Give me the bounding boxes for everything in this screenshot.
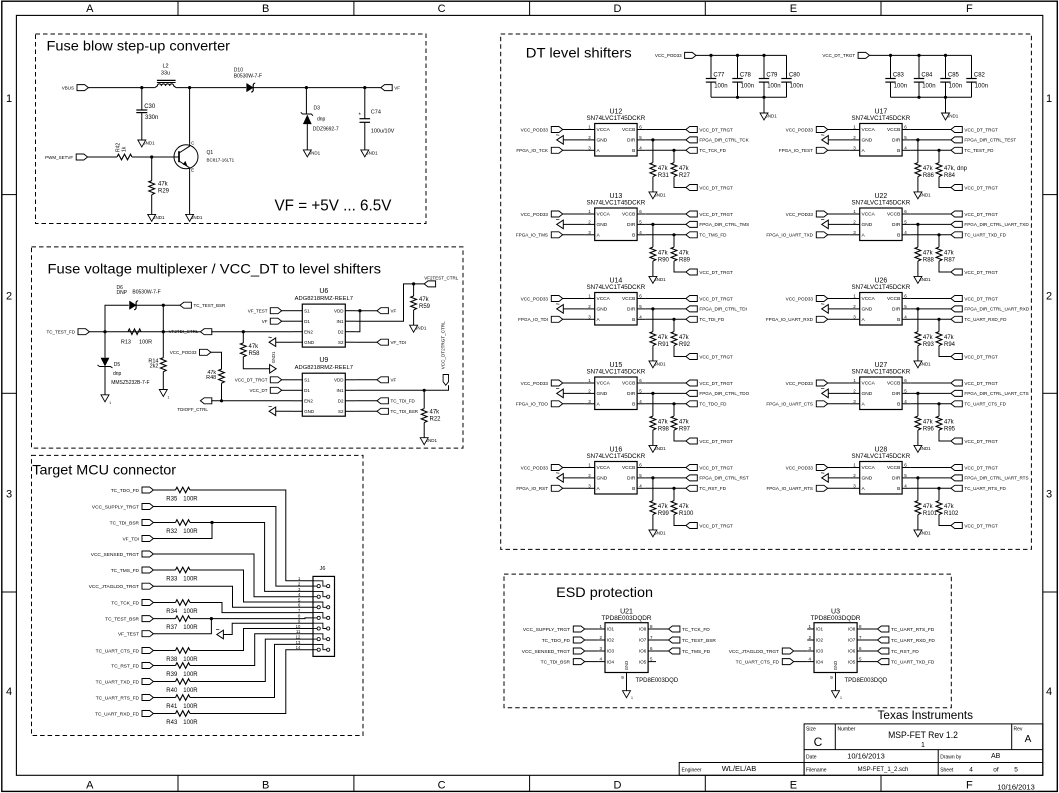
svg-text:S2: S2 (338, 409, 344, 414)
node TC_RST_FD (878, 648, 920, 655)
wire (153, 489, 176, 491)
wire (917, 393, 919, 416)
svg-text:330n: 330n (145, 115, 158, 121)
wire (306, 124, 308, 150)
svg-text:R93: R93 (923, 342, 935, 348)
svg-text:47k, dnp: 47k, dnp (944, 166, 968, 172)
svg-text:R88: R88 (923, 257, 935, 263)
node VCC_DT_TRGT (951, 269, 998, 275)
svg-text:1: 1 (6, 93, 12, 105)
wire (918, 55, 920, 78)
svg-text:VCC_DT_TRGT: VCC_DT_TRGT (964, 296, 998, 301)
section box: DT level shifters (501, 34, 1032, 549)
node FPGA_IO_UART_RTS (766, 485, 827, 491)
wire (763, 82, 765, 97)
svg-text:MSP-FET Rev 1.2: MSP-FET Rev 1.2 (888, 730, 958, 740)
wire (890, 55, 892, 78)
node VCC_POD33 (786, 380, 828, 386)
wire (151, 195, 153, 215)
svg-text:VF: VF (391, 309, 397, 314)
svg-text:VCC_SUPPLY_TRGT: VCC_SUPPLY_TRGT (92, 504, 139, 510)
node VCC_DT_TRGT (686, 465, 733, 471)
wire (242, 332, 244, 343)
svg-text:L2: L2 (162, 64, 168, 70)
svg-text:C84: C84 (921, 73, 933, 79)
svg-text:GND: GND (597, 476, 608, 482)
svg-text:BC817-16LT1: BC817-16LT1 (207, 158, 235, 163)
wire (562, 129, 585, 131)
wire (763, 97, 765, 113)
wire (827, 487, 850, 489)
wire (355, 410, 377, 412)
wire (656, 650, 669, 652)
node FPGA_IO_UART_TXD (766, 232, 827, 238)
junction (672, 233, 675, 236)
resistor R95 47k (936, 416, 956, 432)
svg-text:A: A (1025, 734, 1032, 745)
svg-text:100n: 100n (975, 84, 988, 90)
svg-text:Sheet: Sheet (940, 768, 954, 774)
svg-text:Filename: Filename (806, 768, 827, 774)
svg-text:TC_UART_RTS_FD: TC_UART_RTS_FD (96, 695, 140, 701)
resistor R92 47k (671, 332, 691, 348)
capacitor C83 100n (885, 73, 907, 90)
wire (827, 129, 850, 131)
wire (190, 570, 313, 602)
wire (562, 234, 585, 236)
node TC_TMS_FD (686, 232, 727, 238)
svg-text:100n: 100n (767, 84, 780, 90)
svg-text:TC_TDO_FD: TC_TDO_FD (542, 638, 571, 644)
net arrow GND1 (556, 219, 563, 228)
wire (153, 713, 176, 715)
svg-text:R43: R43 (166, 720, 178, 726)
node TC_UART_RXD_FD (878, 637, 936, 644)
resistor R14 2k2 (148, 358, 166, 372)
wire (911, 477, 951, 479)
svg-text:FPGA_IO_TDI: FPGA_IO_TDI (518, 317, 548, 322)
wire (253, 87, 381, 89)
svg-text:IO5: IO5 (639, 659, 647, 664)
svg-text:FPGA_DIR_CTRL_RST: FPGA_DIR_CTRL_RST (699, 476, 748, 481)
wire (132, 156, 179, 158)
svg-text:D3: D3 (314, 106, 321, 112)
svg-text:47k: 47k (158, 182, 169, 188)
IC U9 ADG8218RMZ-REEL7 (293, 357, 356, 416)
wire (673, 404, 675, 416)
node VCC_SUPPLY_TRGT (92, 504, 153, 511)
wire (652, 393, 654, 416)
resistor R32 100R (166, 520, 198, 535)
ground GND1 (101, 395, 111, 405)
svg-text:VCC_POD33: VCC_POD33 (521, 127, 549, 132)
resistor R94 47k (936, 332, 956, 348)
wire (827, 467, 850, 469)
svg-text:FPGA_DIR_CTRL_UART_TXD: FPGA_DIR_CTRL_UART_TXD (964, 222, 1029, 227)
junction (412, 282, 415, 285)
svg-text:R41: R41 (166, 704, 178, 710)
svg-text:J6: J6 (320, 566, 326, 572)
svg-text:47k: 47k (658, 166, 669, 172)
wire (911, 318, 951, 320)
svg-text:A: A (86, 3, 94, 15)
svg-text:47k: 47k (658, 250, 669, 256)
svg-text:C: C (438, 3, 446, 15)
svg-text:TC_UART_RXD_FD: TC_UART_RXD_FD (964, 317, 1007, 322)
svg-text:R87: R87 (944, 257, 956, 263)
wire (88, 87, 155, 89)
wire (827, 149, 850, 151)
wire (562, 298, 585, 300)
svg-text:VF_TDI: VF_TDI (391, 340, 407, 345)
wire (938, 150, 940, 162)
node FPGA_DIR_CTRL_TMS (686, 221, 749, 227)
wire (563, 392, 585, 394)
svg-text:C80: C80 (789, 73, 801, 79)
svg-text:R39: R39 (166, 672, 178, 678)
junction (651, 392, 654, 395)
svg-text:B: B (262, 3, 269, 15)
svg-text:47k: 47k (923, 250, 934, 256)
svg-text:VCCB: VCCB (622, 381, 635, 387)
node TC_TMS_FD (111, 567, 154, 574)
node FPGA_DIR_CTRL_UART_TXD (951, 221, 1029, 227)
capacitor C80 100n (781, 73, 803, 90)
svg-text:FPGA_DIR_CTRL_TDO: FPGA_DIR_CTRL_TDO (699, 391, 749, 396)
svg-text:R98: R98 (658, 426, 670, 432)
svg-text:TC_TEST_FD: TC_TEST_FD (46, 330, 75, 335)
wire (938, 319, 940, 331)
wire (584, 650, 598, 652)
svg-text:GND: GND (597, 222, 608, 228)
svg-text:VF: VF (394, 85, 400, 90)
svg-text:SN74LVC1T45DCKR: SN74LVC1T45DCKR (852, 200, 911, 207)
wire (223, 623, 313, 634)
resistor R100 47k (671, 501, 694, 517)
node VCC_POD33 (521, 211, 563, 217)
wire (281, 389, 292, 391)
resistor R102 47k (936, 501, 959, 517)
wire (827, 318, 850, 320)
svg-text:SN74LVC1T45DCKR: SN74LVC1T45DCKR (852, 115, 911, 122)
node TC_TDI_BSR (541, 659, 585, 666)
node TC_TEST_BSR (105, 616, 153, 623)
svg-text:TC_TMS_FD: TC_TMS_FD (699, 233, 727, 238)
wire (141, 113, 143, 140)
node VCC_DT_TRGT (686, 523, 733, 529)
node FPGA_IO_UART_RXD (766, 316, 828, 322)
svg-text:R95: R95 (944, 426, 956, 432)
junction (709, 54, 712, 57)
node TC_UART_CTS_FD (736, 659, 794, 666)
wire (917, 224, 919, 247)
svg-text:TPD8E003DQDR: TPD8E003DQDR (601, 615, 651, 622)
node FPGA_DIR_CTRL_UART_RXD (951, 306, 1030, 312)
wire (562, 403, 585, 405)
svg-text:47k: 47k (430, 410, 441, 416)
svg-text:100n: 100n (949, 84, 962, 90)
node VCC_JTAGLDO_TRGT (89, 583, 154, 590)
wire (276, 341, 293, 343)
svg-text:VCC_POD33: VCC_POD33 (786, 296, 814, 301)
svg-text:DNP: DNP (117, 290, 128, 296)
node VCC_DT_TRGT (686, 438, 733, 444)
junction (220, 399, 223, 402)
svg-text:U6: U6 (319, 288, 328, 295)
node VCC_DT_TRGT (951, 380, 998, 386)
diode D3 DDZ9692-7 dnp (301, 106, 339, 133)
svg-text:B: B (632, 401, 635, 407)
svg-text:B0530W-7-F: B0530W-7-F (132, 290, 160, 296)
svg-text:DIR: DIR (627, 307, 636, 313)
IC U3 TPD8E003DQDR (807, 609, 888, 691)
wire (646, 213, 686, 215)
svg-text:TC_TDI_FD: TC_TDI_FD (699, 317, 724, 322)
wire (710, 82, 712, 97)
svg-text:FPGA_DIR_CTRL_TCK: FPGA_DIR_CTRL_TCK (699, 138, 749, 143)
svg-text:VCC_DT_TRGT: VCC_DT_TRGT (699, 270, 733, 275)
wire (87, 156, 117, 158)
node VCC_DT_TRGT (686, 269, 733, 275)
wire (136, 304, 180, 306)
wire (190, 644, 313, 697)
wire (151, 157, 153, 181)
svg-text:R33: R33 (166, 576, 178, 582)
node VCC_DT_TRGT (686, 354, 733, 360)
svg-text:VDD: VDD (334, 308, 344, 313)
svg-text:GND: GND (862, 391, 873, 397)
svg-text:Drawn by: Drawn by (940, 755, 962, 761)
ground GND1 (148, 214, 165, 221)
svg-text:GND: GND (833, 661, 838, 670)
svg-text:F: F (966, 3, 973, 15)
svg-text:47k: 47k (944, 335, 955, 341)
svg-text:14: 14 (296, 645, 301, 650)
svg-text:47k: 47k (658, 335, 669, 341)
svg-text:VCC_DT_TRGT: VCC_DT_TRGT (964, 439, 998, 444)
wire (652, 346, 654, 361)
svg-text:R35: R35 (166, 496, 178, 502)
wire (153, 618, 176, 620)
svg-text:R90: R90 (658, 257, 670, 263)
svg-text:D5: D5 (114, 362, 121, 368)
node FPGA_IO_TCK (516, 147, 562, 153)
svg-text:100R: 100R (183, 657, 198, 663)
svg-text:FPGA_DIR_CTRL_UART_RXD: FPGA_DIR_CTRL_UART_RXD (964, 307, 1029, 312)
wire (911, 149, 951, 151)
ground GND1 (942, 113, 959, 120)
net arrow GND1 (556, 135, 563, 144)
ground GND1 (410, 325, 427, 332)
section box: Fuse blow step-up converter (36, 34, 427, 224)
wire (153, 619, 212, 634)
svg-text:U9: U9 (319, 357, 328, 364)
wire (646, 403, 686, 405)
svg-text:SN74LVC1T45DCKR: SN74LVC1T45DCKR (852, 284, 911, 291)
svg-text:47k: 47k (419, 297, 430, 303)
node TC_TEST_BSR (180, 302, 226, 308)
svg-text:SN74LVC1T45DCKR: SN74LVC1T45DCKR (587, 284, 646, 291)
resistor R48 47k (206, 369, 224, 383)
junction (937, 487, 940, 490)
node VCC_POD33 (521, 127, 563, 133)
svg-text:Fuse blow step-up converter: Fuse blow step-up converter (47, 38, 231, 54)
wire top rail (695, 54, 786, 56)
node TC_TCK_FD (686, 147, 727, 153)
svg-text:VCCA: VCCA (597, 296, 611, 302)
svg-text:4: 4 (6, 686, 12, 698)
wire (190, 617, 313, 620)
resistor R101 47k (915, 501, 938, 517)
svg-text:10/16/2013: 10/16/2013 (847, 751, 885, 760)
svg-text:3: 3 (1046, 488, 1052, 500)
svg-text:TC_TDI_BSR: TC_TDI_BSR (391, 409, 419, 414)
svg-text:100u/10V: 100u/10V (371, 129, 395, 135)
ground GND1 (914, 530, 931, 537)
svg-text:VCC_SUPPLY_TRGT: VCC_SUPPLY_TRGT (523, 627, 570, 633)
svg-text:SN74LVC1T45DCKR: SN74LVC1T45DCKR (587, 369, 646, 376)
svg-text:TC_TEST_BSR: TC_TEST_BSR (105, 616, 139, 622)
wire (141, 88, 143, 110)
wire (413, 310, 415, 325)
svg-text:Target MCU connector: Target MCU connector (32, 462, 176, 478)
resistor R58 47k (240, 343, 260, 357)
svg-text:IO8: IO8 (639, 627, 647, 632)
svg-text:47k: 47k (679, 419, 690, 425)
wire (153, 697, 176, 699)
wire (355, 341, 377, 343)
wire (162, 332, 164, 358)
capacitor C85 100n (940, 73, 962, 90)
ground GND1 (649, 192, 666, 199)
wire (584, 639, 598, 641)
svg-text:VCC_POD33: VCC_POD33 (521, 381, 549, 386)
node VF_TEST (248, 308, 282, 314)
wire bottom rail (711, 96, 787, 98)
node TC_UART_RTS_FD (878, 626, 935, 633)
wire (646, 149, 686, 151)
svg-text:D2: D2 (338, 399, 344, 404)
svg-text:IO6: IO6 (639, 649, 647, 654)
wire (646, 129, 686, 131)
svg-text:VCC_DT_TRGT: VCC_DT_TRGT (964, 270, 998, 275)
wire (828, 477, 850, 479)
svg-text:47k: 47k (679, 250, 690, 256)
node FPGA_DIR_CTRL_TEST (951, 137, 1017, 143)
wire bottom rail (891, 96, 972, 98)
svg-text:VCC_DT_TRGT: VCC_DT_TRGT (699, 381, 733, 386)
svg-text:C79: C79 (766, 73, 778, 79)
node FPGA_DIR_CTRL_UART_CTS (951, 390, 1029, 396)
wire (153, 554, 313, 597)
node TC_UART_CTS_FD (96, 648, 154, 655)
svg-text:VCC_DT_TRGT: VCC_DT_TRGT (699, 523, 733, 528)
node VF (377, 377, 397, 383)
resistor R31 47k (650, 163, 670, 179)
node VF (377, 308, 397, 314)
node TC_UART_RXD_FD (95, 711, 153, 718)
svg-text:B: B (262, 780, 269, 792)
svg-text:TPD8E003DQD: TPD8E003DQD (845, 678, 888, 684)
wire (652, 430, 654, 445)
wire (190, 629, 313, 651)
svg-text:VCCB: VCCB (887, 212, 900, 218)
svg-text:2: 2 (1046, 291, 1052, 303)
capacitor C82 100n (966, 73, 988, 90)
svg-text:DIR: DIR (892, 476, 901, 482)
resistor R91 47k (650, 332, 670, 348)
svg-text:VCC_DT_TRGT: VCC_DT_TRGT (964, 212, 998, 217)
node VCC_DT_TRGT (822, 52, 869, 58)
resistor R40 100R (166, 679, 198, 694)
svg-text:1: 1 (1046, 93, 1052, 105)
svg-text:D: D (614, 3, 622, 15)
svg-text:D1: D1 (304, 319, 310, 324)
svg-text:100R: 100R (183, 496, 198, 502)
svg-text:47k: 47k (923, 166, 934, 172)
section box: Fuse voltage multiplexer / VCC_DT to level shifters (32, 247, 464, 448)
node VF2TEST_CTRL (424, 275, 459, 280)
junction (103, 330, 106, 333)
svg-text:VCC_DT_TRGT: VCC_DT_TRGT (699, 354, 733, 359)
node VBUS (62, 85, 89, 91)
IC U26 SN74LVC1T45DCKR (850, 278, 911, 326)
node FPGA_DIR_CTRL_UART_RTS (951, 475, 1029, 481)
IC U14 SN74LVC1T45DCKR (585, 278, 646, 326)
svg-text:ESD protection: ESD protection (556, 584, 653, 600)
resistor R42 1k (116, 143, 133, 160)
wire (945, 82, 947, 97)
svg-text:VCC_POD33: VCC_POD33 (521, 212, 549, 217)
svg-text:R86: R86 (923, 173, 935, 179)
wire (176, 87, 246, 89)
svg-text:VDD: VDD (334, 378, 344, 383)
svg-text:PWM_SETVF: PWM_SETVF (45, 155, 73, 160)
wire (674, 346, 686, 357)
svg-text:Engineer: Engineer (682, 768, 702, 774)
svg-text:TC_TMS_FD: TC_TMS_FD (111, 568, 140, 574)
diode D10 (247, 83, 256, 92)
svg-text:1: 1 (109, 401, 111, 405)
wire (646, 392, 686, 394)
svg-text:IO6: IO6 (848, 649, 856, 654)
svg-text:R96: R96 (923, 426, 935, 432)
svg-text:ADG8218RMZ-REEL7: ADG8218RMZ-REEL7 (295, 296, 353, 302)
wire (584, 661, 598, 663)
node VCC_DT_TRGT (951, 185, 998, 191)
svg-text:GND: GND (597, 307, 608, 313)
svg-text:GND: GND (597, 391, 608, 397)
svg-text:VCC_SENSED_TRGT: VCC_SENSED_TRGT (91, 552, 139, 558)
resistor R34 100R (166, 600, 198, 615)
junction (937, 233, 940, 236)
junction (363, 86, 366, 89)
svg-text:100R: 100R (183, 720, 198, 726)
svg-text:R13: R13 (121, 339, 131, 345)
junction (736, 96, 739, 99)
svg-text:FPGA_IO_TEST: FPGA_IO_TEST (779, 148, 813, 153)
junction (916, 307, 919, 310)
node VCC_DT_TRGT (686, 380, 733, 386)
svg-text:VCC_POD33: VCC_POD33 (786, 465, 814, 470)
wire (153, 586, 313, 607)
wire (153, 681, 176, 683)
svg-text:VCCB: VCCB (622, 296, 635, 302)
svg-text:47k: 47k (658, 504, 669, 510)
wire (153, 507, 313, 587)
svg-text:TDIOFF_CTRL: TDIOFF_CTRL (177, 407, 208, 412)
resistor R37 100R (166, 616, 198, 631)
